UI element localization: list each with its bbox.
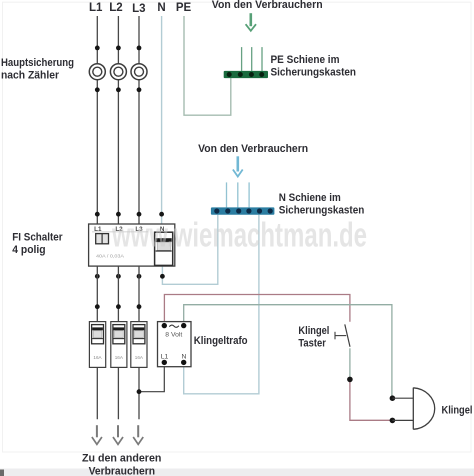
svg-text:Von den Verbrauchern: Von den Verbrauchern (198, 143, 308, 155)
green arrow down (PE) (246, 13, 256, 31)
svg-text:PE Schiene im: PE Schiene im (271, 54, 340, 66)
text Hauptsicherung nach Zaehler (1, 57, 74, 82)
wire L3 lower (138, 266, 140, 419)
svg-text:L2: L2 (109, 2, 122, 14)
breaker F1 16A (89, 322, 105, 368)
Klingeltrafo box T1 (158, 322, 192, 367)
svg-text:Klingeltrafo: Klingeltrafo (194, 335, 248, 347)
FI label underline (92, 231, 148, 233)
svg-text:Sicherungskasten: Sicherungskasten (279, 204, 365, 216)
wire PE feed (184, 16, 231, 115)
bottom arrow L2 (113, 425, 123, 444)
svg-text:Taster: Taster (298, 337, 326, 349)
bottom arrow L3 (133, 425, 143, 444)
svg-text:Zu den anderen: Zu den anderen (82, 452, 162, 464)
trafo terminals (162, 323, 187, 365)
text Klingel Taster (298, 325, 329, 349)
fuse L1 (89, 64, 105, 80)
PE bus stub wires (242, 47, 262, 71)
wire teal below taster blade (349, 348, 351, 379)
svg-text:Sicherungskasten: Sicherungskasten (271, 66, 357, 78)
wire crimson taster to bell (350, 379, 393, 420)
svg-text:Von den Verbrauchern: Von den Verbrauchern (212, 0, 323, 11)
wire black trafo L1 feed (139, 362, 164, 391)
N bus stub wires (227, 182, 250, 207)
taster actuator (335, 332, 346, 340)
PE bus bar (224, 71, 268, 78)
junction dots above FI (95, 212, 164, 217)
FI N switch lever (155, 232, 173, 265)
text N Schiene im Sicherungskasten (279, 192, 365, 217)
junction dots above fuses (95, 46, 142, 51)
bottom gray strip (0, 469, 474, 476)
breaker F3 16A (131, 322, 147, 368)
svg-text:4 polig: 4 polig (12, 244, 45, 256)
taster junction dot (347, 377, 353, 383)
svg-text:16A: 16A (93, 355, 102, 360)
N bus terminal dots (214, 208, 273, 213)
text FI Schalter 4 polig (12, 232, 63, 256)
svg-text:16A: 16A (135, 355, 144, 360)
svg-text:L3: L3 (132, 3, 145, 15)
taster blade (345, 324, 350, 346)
bell input dots (390, 395, 396, 401)
wire teal trafo to bell (184, 305, 392, 399)
blue arrow down (N) (233, 156, 243, 176)
wire N upper (161, 16, 163, 224)
N wire from bus to Klingeltrafo (184, 215, 259, 394)
FI Schalter box U1 (89, 224, 175, 266)
wire L3 upper (138, 16, 140, 224)
wire crimson trafo to taster (164, 295, 350, 326)
svg-text:nach Zähler: nach Zähler (1, 70, 60, 82)
svg-text:16A: 16A (115, 355, 124, 360)
text PE Schiene im Sicherungskasten (271, 54, 357, 79)
N wire from FI output to bus (162, 215, 217, 285)
svg-text:Klingel: Klingel (298, 325, 329, 337)
wire L2 lower (117, 266, 119, 419)
breaker F2 16A (111, 322, 127, 368)
bell wire stubs (392, 398, 413, 420)
bottom arrow L1 (92, 425, 102, 444)
junction dots below fuses (95, 87, 142, 92)
svg-text:N: N (181, 353, 186, 360)
junction dots above breakers (95, 304, 142, 309)
svg-text:Hauptsicherung: Hauptsicherung (1, 57, 74, 69)
N bus bar (211, 207, 275, 214)
svg-text:N Schiene im: N Schiene im (279, 192, 341, 204)
svg-text:Klingel: Klingel (442, 405, 473, 417)
fuse L2 (110, 64, 126, 80)
svg-text:FI Schalter: FI Schalter (12, 232, 63, 244)
wire L2 upper (117, 16, 119, 224)
svg-text:L1: L1 (89, 2, 103, 14)
bottom-left dark mark (0, 470, 4, 476)
PE bus terminal dots (227, 72, 265, 77)
svg-text:Verbrauchern: Verbrauchern (89, 465, 156, 476)
FI test button (96, 234, 109, 244)
bell (Klingel) symbol (413, 388, 434, 430)
junction dot on L3 wire (137, 389, 142, 394)
wire L1 upper (96, 16, 98, 224)
fuse L3 (131, 64, 147, 80)
svg-text:www.wiemachtman.de: www.wiemachtman.de (111, 217, 367, 255)
text Zu den anderen Verbrauchern (82, 452, 162, 476)
svg-text:N: N (157, 2, 165, 14)
junction dots below FI (95, 274, 165, 279)
trafo tilde symbol (169, 325, 179, 327)
svg-text:8 Volt: 8 Volt (165, 331, 182, 338)
svg-text:PE: PE (176, 2, 192, 14)
svg-text:L1: L1 (161, 353, 169, 360)
wire L1 lower (96, 266, 98, 419)
